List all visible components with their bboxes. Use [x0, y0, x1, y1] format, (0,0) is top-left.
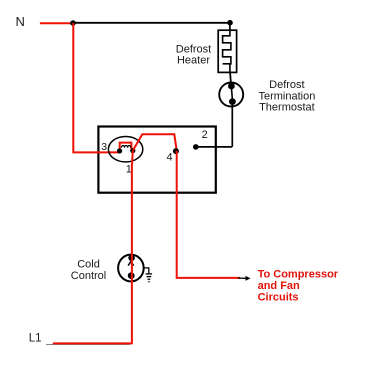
svg-text:N: N [16, 14, 25, 29]
terminal 2 dot [193, 144, 199, 150]
ground connector [144, 268, 149, 274]
svg-text:L1: L1 [29, 333, 42, 345]
motor right dot (terminal 1) [130, 148, 135, 153]
heater element meander [223, 30, 231, 72]
thermostat arm [231, 87, 232, 100]
svg-text:Defrost: Defrost [269, 79, 304, 91]
wire thermostat down [231, 104, 233, 147]
wire red: motor loop terminal 3 to winding top [120, 143, 132, 153]
wire red: terminal 1 down to L1 [53, 151, 133, 344]
svg-text:and Fan: and Fan [258, 280, 300, 292]
arrowhead to compressor [238, 277, 246, 279]
cold control arm arrow [128, 262, 134, 266]
svg-text:Defrost: Defrost [176, 43, 211, 55]
defrost heater box [218, 30, 236, 72]
thermostat top contact dot [228, 83, 235, 90]
cold control top dot [128, 254, 135, 261]
ground bars [146, 273, 153, 275]
terminal 4 dot [173, 148, 179, 154]
motor ellipse [108, 137, 142, 162]
svg-text:2: 2 [202, 129, 208, 141]
wire to terminal 2 [196, 146, 232, 148]
motor winding scallops [121, 146, 130, 148]
wire heater to thermostat [229, 72, 232, 83]
svg-text:Control: Control [71, 270, 106, 282]
wire red: junction down and into terminal 3 [73, 23, 119, 152]
svg-text:Termination: Termination [258, 90, 315, 102]
wire N to top junction (red) [40, 22, 73, 24]
svg-text:Heater: Heater [177, 55, 210, 67]
wire red: motor to terminal 4 [133, 134, 177, 150]
svg-text:Cold: Cold [77, 258, 100, 270]
wire top horizontal (black) [73, 22, 231, 24]
motor left dot (terminal 3) [117, 148, 122, 153]
wire junction to heater [229, 23, 231, 31]
wire red: terminal 4 down to compressor arrow [177, 151, 240, 278]
cold control bottom dot [128, 272, 135, 279]
defrost termination thermostat [219, 83, 243, 107]
svg-text:3: 3 [101, 141, 107, 153]
svg-text:Thermostat: Thermostat [259, 102, 315, 114]
junction dot above heater [227, 20, 233, 26]
thermostat bottom contact dot [229, 98, 236, 105]
L1 shadow segment [46, 344, 130, 346]
junction dot at N branch [70, 20, 76, 26]
svg-text:4: 4 [166, 151, 172, 163]
timer box [98, 127, 215, 193]
svg-text:To Compressor: To Compressor [258, 269, 339, 281]
svg-text:Circuits: Circuits [258, 292, 299, 304]
cold control circle [118, 255, 144, 282]
